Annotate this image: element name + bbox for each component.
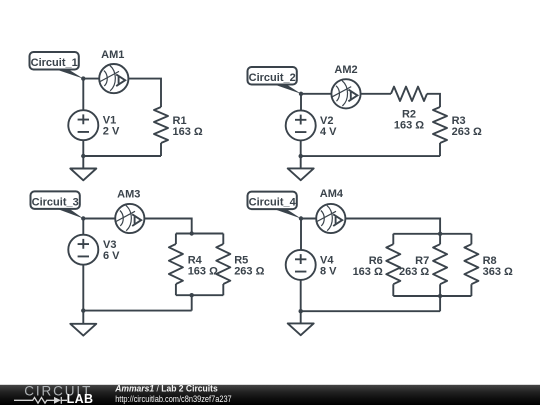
- svg-text:Ammars1 / Lab 2 Circuits: Ammars1 / Lab 2 Circuits: [114, 384, 217, 394]
- svg-text:AM4: AM4: [320, 188, 344, 200]
- svg-text:363 Ω: 363 Ω: [483, 266, 513, 278]
- svg-text:AM2: AM2: [334, 64, 357, 76]
- svg-text:6 V: 6 V: [103, 250, 120, 262]
- svg-text:263 Ω: 263 Ω: [399, 266, 429, 278]
- svg-text:Circuit_4: Circuit_4: [249, 197, 297, 209]
- svg-text:4 V: 4 V: [320, 126, 337, 138]
- svg-text:8 V: 8 V: [320, 265, 337, 277]
- svg-text:163 Ω: 163 Ω: [394, 120, 424, 132]
- svg-text:http://circuitlab.com/c8n39zef: http://circuitlab.com/c8n39zef7a237: [115, 394, 232, 404]
- svg-text:Circuit_2: Circuit_2: [249, 72, 296, 84]
- svg-text:263 Ω: 263 Ω: [452, 126, 482, 138]
- svg-text:163 Ω: 163 Ω: [353, 266, 383, 278]
- svg-text:Circuit_1: Circuit_1: [31, 57, 78, 69]
- svg-text:AM3: AM3: [117, 189, 140, 201]
- svg-text:AM1: AM1: [101, 49, 124, 61]
- svg-text:LAB: LAB: [67, 392, 94, 405]
- svg-text:163 Ω: 163 Ω: [188, 265, 218, 277]
- svg-text:263 Ω: 263 Ω: [234, 265, 264, 277]
- svg-text:163 Ω: 163 Ω: [173, 126, 203, 138]
- svg-text:Circuit_3: Circuit_3: [32, 196, 79, 208]
- svg-text:2 V: 2 V: [103, 126, 120, 138]
